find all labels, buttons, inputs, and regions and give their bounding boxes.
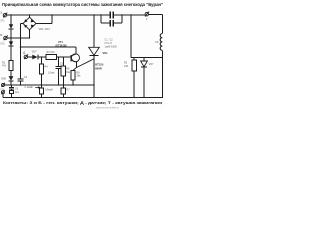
svg-text:(КТ361В): (КТ361В) <box>56 44 67 48</box>
svg-text:0,5мкФ: 0,5мкФ <box>45 89 53 92</box>
svg-text:Д: Д <box>23 51 25 55</box>
svg-text:www.snowmobile.ru: www.snowmobile.ru <box>96 106 119 110</box>
svg-text:ХТ1: ХТ1 <box>0 20 5 23</box>
svg-text:800R: 800R <box>95 66 101 70</box>
svg-text:VD8: VD8 <box>1 77 6 80</box>
svg-text:ВТ151-: ВТ151- <box>95 62 104 66</box>
svg-text:VD7: VD7 <box>32 50 37 53</box>
svg-text:240: 240 <box>124 65 129 68</box>
svg-text:Т: Т <box>146 17 148 21</box>
svg-text:ХТ2: ХТ2 <box>0 42 5 45</box>
svg-text:VD7: VD7 <box>149 63 154 66</box>
svg-text:Принципиальная схема коммутато: Принципиальная схема коммутатора системы… <box>2 2 163 7</box>
svg-text:КЗ: КЗ <box>155 40 158 44</box>
svg-text:Контакты: З и Б - ген. катушк: Контакты: З и Б - ген. катушки; Д - датч… <box>3 100 163 105</box>
svg-text:VS1: VS1 <box>103 51 109 55</box>
svg-text:Б: Б <box>0 33 2 37</box>
svg-text:З: З <box>0 10 2 14</box>
svg-text:VD1: VD4: VD1: VD4 <box>39 28 51 31</box>
svg-text:1мкФ 630В: 1мкФ 630В <box>105 45 117 48</box>
svg-text:R3 510: R3 510 <box>47 51 56 54</box>
svg-text:0,1мк: 0,1мк <box>48 72 55 75</box>
svg-text:VT1: VT1 <box>58 40 63 44</box>
svg-text:0,1мкФ: 0,1мкФ <box>25 86 33 89</box>
